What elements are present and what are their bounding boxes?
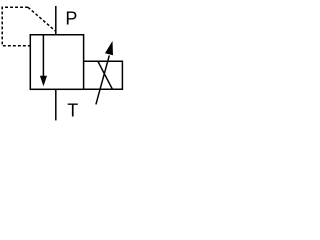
pilot dashed diagonal line	[28, 7, 55, 31]
wire T port line	[55, 89, 57, 120]
flow path arrow shaft	[42, 35, 44, 76]
svg-text:P: P	[65, 8, 77, 28]
adjustment arrowhead	[105, 41, 113, 55]
throttle box	[84, 61, 123, 89]
flow path arrowhead	[40, 76, 47, 87]
adjustment arrow line	[96, 56, 109, 105]
wire P port line	[55, 6, 57, 35]
pilot enclosure dashed box	[2, 7, 30, 46]
valve envelope box	[30, 35, 83, 90]
svg-text:T: T	[67, 100, 78, 120]
background	[0, 0, 128, 128]
throttle cross diagonal	[98, 62, 112, 89]
